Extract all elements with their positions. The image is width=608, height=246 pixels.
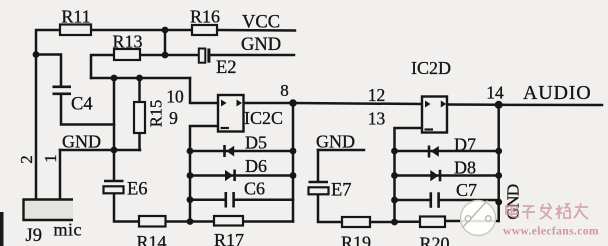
svg-text:www.elecfans.com: www.elecfans.com	[503, 226, 599, 238]
capacitor E6	[104, 181, 124, 193]
junction net78 left	[111, 75, 118, 82]
junction ladder2 L1	[391, 148, 398, 155]
wire C6 row left	[190, 198, 225, 201]
svg-text:GND: GND	[62, 132, 101, 152]
wire R13 left jog	[91, 55, 114, 78]
junction node A top	[162, 27, 169, 34]
wire node A vertical	[164, 30, 167, 55]
svg-text:E2: E2	[216, 58, 237, 78]
junction ladder2 R3	[495, 199, 502, 206]
wire GND stub mid	[318, 149, 364, 152]
diode D6	[225, 170, 235, 182]
resistor R16	[192, 25, 217, 35]
wire pin10 jog	[190, 78, 218, 103]
wire C7 row left	[395, 199, 431, 202]
wire rail to R20	[395, 221, 421, 224]
svg-text:J9: J9	[26, 226, 42, 246]
svg-text:mic: mic	[54, 220, 83, 240]
wire mic pin1	[59, 150, 62, 198]
svg-text:14: 14	[486, 83, 504, 103]
junction pin8	[289, 99, 297, 107]
wire R15 top	[138, 78, 141, 102]
junction ladder1 L4	[187, 218, 194, 225]
capacitor E2	[199, 49, 209, 63]
wire vertical x114 to E6	[113, 78, 116, 181]
junction C4 rail	[33, 51, 40, 58]
resistor R20	[420, 217, 445, 228]
op-amp IC2D	[422, 97, 447, 133]
capacitor C4	[53, 87, 72, 94]
resistor R13	[114, 49, 140, 60]
svg-text:R11: R11	[61, 7, 90, 27]
wire R14 to ladder	[166, 220, 215, 223]
junction pin14	[495, 101, 503, 109]
wire IC2C output pin8	[244, 102, 294, 105]
wire ladder2 right rail	[497, 105, 500, 221]
wire ladder2 left rail	[393, 151, 396, 222]
wire R13 right to E2	[140, 54, 199, 57]
wire ladder1 right rail	[292, 103, 295, 222]
junction node A bottom	[162, 52, 169, 59]
diode D7	[429, 146, 439, 158]
junction ladder2 L2	[391, 172, 398, 179]
svg-text:D7: D7	[454, 135, 476, 155]
svg-text:IC2D: IC2D	[411, 58, 451, 78]
svg-text:D6: D6	[245, 156, 267, 176]
svg-text:10: 10	[166, 87, 184, 107]
svg-text:E6: E6	[127, 180, 148, 200]
svg-text:1: 1	[41, 154, 60, 163]
scan artifact left edge	[0, 212, 4, 246]
wire ladder1 left rail	[189, 151, 192, 222]
junction ladder2 R2	[495, 172, 502, 179]
wire C4 bottom to node	[61, 95, 114, 125]
resistor R17	[214, 216, 243, 226]
svg-text:R13: R13	[112, 32, 142, 52]
wire R15 bottom	[138, 133, 141, 150]
svg-text:GND: GND	[241, 35, 281, 55]
junction ladder2 L4	[391, 219, 398, 226]
junction ladder1 R1	[290, 148, 297, 155]
svg-text:C4: C4	[71, 95, 93, 115]
junction ladder1 L3	[187, 196, 194, 203]
svg-text:R16: R16	[190, 7, 220, 27]
connector J9 mic body	[23, 199, 73, 221]
wire D7 row	[395, 150, 499, 153]
wire E7 bottom to R19	[318, 194, 342, 223]
svg-text:IC2C: IC2C	[244, 108, 283, 128]
svg-text:D8: D8	[454, 158, 476, 178]
svg-text:R19: R19	[341, 233, 371, 246]
capacitor C7	[431, 192, 439, 208]
wire left rail mic pin2	[36, 30, 60, 198]
resistor R11	[60, 25, 91, 36]
wire R17 to right rail	[243, 220, 293, 223]
watermark chinese text	[506, 203, 588, 219]
wire D5 row	[190, 150, 293, 153]
wire IC2D output pin14	[447, 103, 499, 106]
resistor R14	[139, 216, 166, 227]
svg-text:8: 8	[280, 81, 289, 100]
wire E6 bottom to R14	[114, 194, 139, 222]
capacitor E7	[309, 182, 329, 194]
svg-text:GND: GND	[316, 132, 355, 152]
junction ladder1 R2	[290, 172, 297, 179]
wire E7 top	[317, 150, 320, 181]
wire C6 row right	[234, 198, 293, 201]
svg-text:C7: C7	[456, 180, 477, 200]
wire GND line top	[211, 54, 294, 57]
svg-text:VCC: VCC	[242, 13, 280, 33]
capacitor C6	[226, 192, 234, 208]
svg-text:AUDIO: AUDIO	[523, 82, 591, 104]
wire C4 top branch	[36, 55, 61, 87]
junction ladder2 R1	[495, 148, 502, 155]
svg-text:12: 12	[368, 85, 386, 105]
wire R19 to rail	[370, 221, 395, 224]
junction ladder2 L3	[391, 197, 398, 204]
watermark logo circle	[461, 201, 496, 236]
wire R11 to node A	[91, 29, 192, 32]
op-amp IC2C	[218, 95, 244, 132]
svg-text:13: 13	[368, 109, 386, 129]
svg-text:C6: C6	[244, 179, 265, 199]
svg-text:R20: R20	[419, 234, 449, 246]
wire pin13 jog	[395, 128, 423, 151]
diode D5	[225, 145, 235, 157]
svg-text:R17: R17	[214, 230, 244, 246]
svg-text:R14: R14	[136, 232, 166, 246]
wire D8 row	[395, 174, 499, 177]
svg-text:9: 9	[169, 108, 178, 128]
junction ladder1 L1	[187, 148, 194, 155]
wire VCC line	[217, 29, 295, 32]
wire pin9 jog	[190, 126, 218, 151]
wire C7 row right	[439, 199, 499, 202]
resistor R19	[342, 217, 370, 227]
resistor R15	[134, 102, 145, 133]
svg-text:R15: R15	[146, 100, 165, 128]
svg-text:D5: D5	[245, 133, 267, 153]
svg-text:E7: E7	[331, 181, 352, 201]
wire pin8 to pin12	[293, 103, 422, 104]
wire D6 row	[190, 174, 293, 177]
junction net78 right	[136, 75, 143, 82]
wire GND left	[60, 149, 140, 152]
wire R20 to right rail	[445, 220, 499, 223]
wire AUDIO out	[499, 104, 602, 107]
diode D8	[430, 170, 440, 182]
junction ladder1 L2	[187, 172, 194, 179]
wire net y78	[91, 77, 190, 80]
svg-text:2: 2	[17, 155, 36, 164]
junction GND left	[111, 147, 118, 154]
